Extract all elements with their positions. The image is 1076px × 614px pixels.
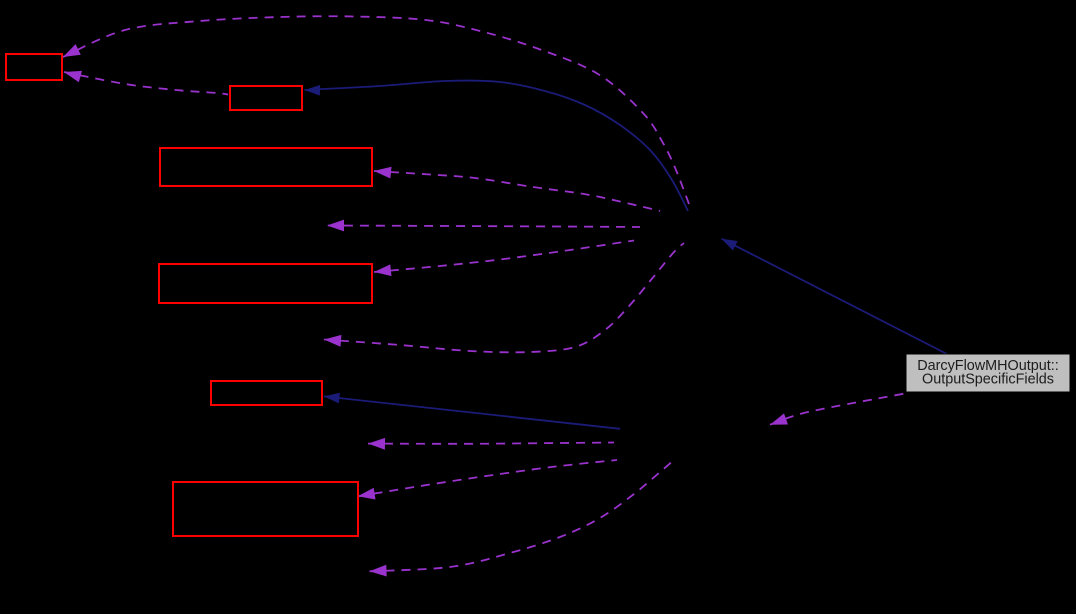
- svg-text:OutputSpecificFields: OutputSpecificFields: [922, 372, 1054, 388]
